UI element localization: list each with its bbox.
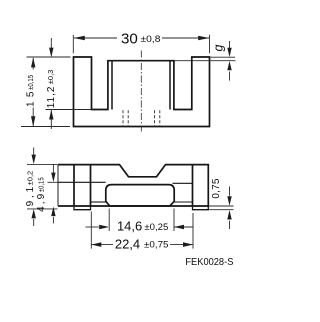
hidden edge dashed right pair <box>154 110 156 126</box>
svg-text:±0,2: ±0,2 <box>26 171 35 186</box>
svg-text:14,6: 14,6 <box>117 219 142 234</box>
dim 4,9 arrows outside <box>52 164 54 173</box>
dim 11,2 line with outside arrows <box>50 38 52 48</box>
recessed front edge in windows <box>91 201 106 203</box>
bottom view outline <box>58 165 208 206</box>
dim g extension lines <box>211 56 236 58</box>
dim 15 extension lines <box>27 56 71 58</box>
svg-text:30: 30 <box>121 31 138 48</box>
svg-text:±0,3: ±0,3 <box>46 70 55 85</box>
center leg inner edge right <box>169 61 171 109</box>
center leg inner edge left <box>111 61 113 109</box>
svg-text:±0,8: ±0,8 <box>141 34 161 45</box>
dim 4,9 extension line <box>48 181 59 183</box>
svg-text:0,75: 0,75 <box>211 178 222 198</box>
dim 14,6 line with outside arrows <box>86 226 99 228</box>
dim 15 arrows <box>31 58 35 68</box>
step right <box>193 206 209 210</box>
dim 14,6 extension verticals <box>108 209 110 232</box>
svg-text:15: 15 <box>25 91 36 107</box>
leg projection verticals <box>73 165 75 206</box>
internal line left <box>58 181 106 183</box>
dim 22,4 arrows <box>91 242 101 247</box>
dim 9,1 arrows outside <box>33 148 35 155</box>
dim 22,4 line <box>91 244 113 246</box>
svg-text:±0,25: ±0,25 <box>144 222 168 233</box>
svg-text:9,1: 9,1 <box>25 186 36 206</box>
center pad <box>106 185 174 206</box>
svg-text:±0,15: ±0,15 <box>37 177 46 192</box>
svg-text:±0,15: ±0,15 <box>26 75 35 90</box>
svg-text:11,2: 11,2 <box>46 86 57 108</box>
dim 30 extension ticks <box>72 35 74 53</box>
svg-text:±0,75: ±0,75 <box>144 240 169 251</box>
dim 30 line <box>74 37 117 39</box>
dim 11,2 extension line <box>46 109 93 111</box>
svg-text:FEK0028-S: FEK0028-S <box>185 257 233 268</box>
svg-text:g: g <box>211 45 225 52</box>
dim 0,75 extension lines <box>209 205 234 207</box>
centerline dash-dot <box>140 51 142 132</box>
step left <box>74 206 91 210</box>
dim 15 line <box>32 58 34 70</box>
dim 30 arrows <box>74 36 85 41</box>
dim g arrows <box>229 41 231 49</box>
svg-text:22,4: 22,4 <box>115 236 140 251</box>
core front view outline <box>74 57 210 127</box>
dim 22,4 extension verticals <box>90 212 92 249</box>
svg-text:4,9: 4,9 <box>36 193 47 211</box>
internal line right <box>173 182 193 184</box>
dim 9,1 extension lines <box>27 163 58 165</box>
hidden edge dashed left pair <box>122 110 124 126</box>
dim 0,75 arrows <box>229 187 231 196</box>
